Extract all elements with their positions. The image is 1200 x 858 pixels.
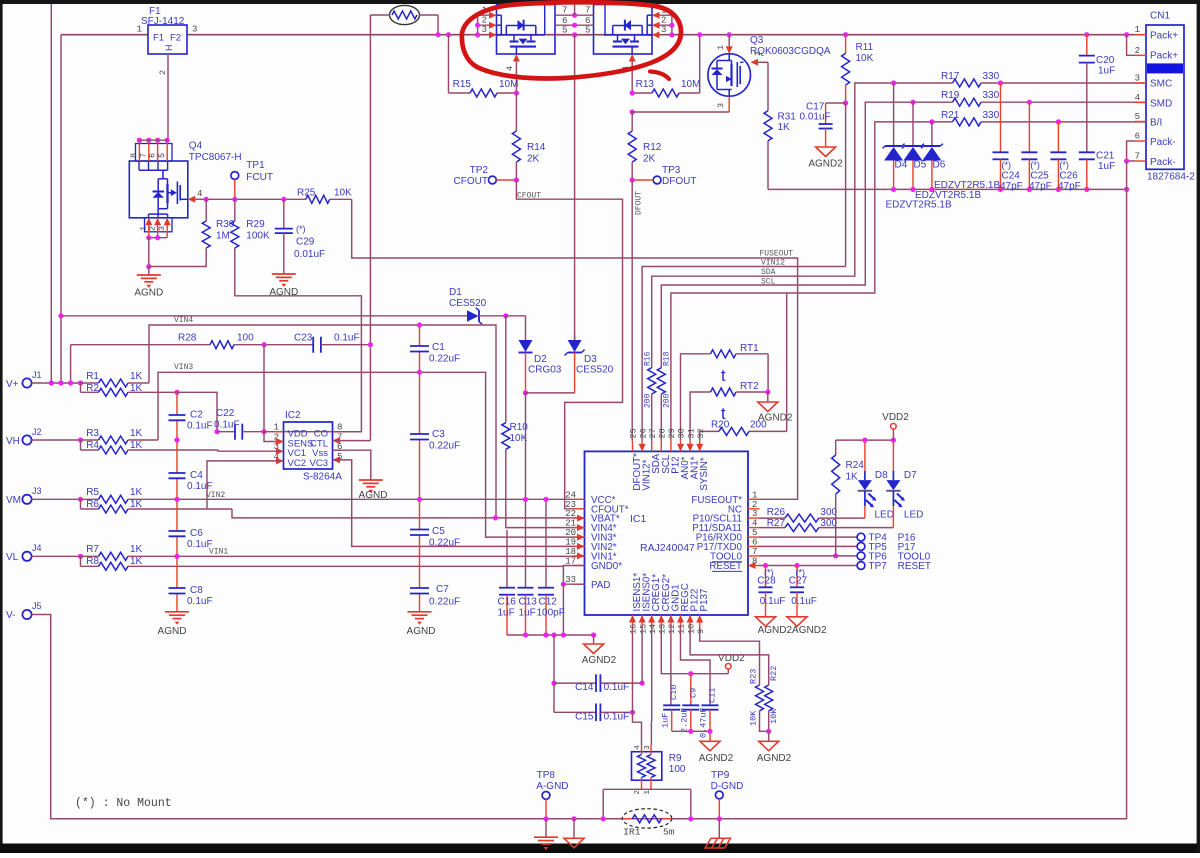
svg-text:R13: R13 <box>636 79 655 90</box>
net label SDA <box>761 268 776 277</box>
labels EDZVT2R5.1B x3 <box>886 180 1001 211</box>
capacitor chain C2 C4 C6 C8 verticals <box>174 390 179 612</box>
svg-text:J3: J3 <box>32 486 42 496</box>
svg-text:1K: 1K <box>130 544 143 555</box>
svg-text:C22: C22 <box>216 408 235 419</box>
capacitor C11 0.47uF <box>699 688 719 742</box>
junction dot R28/C23/IC2pin1 riser <box>262 342 267 347</box>
svg-text:TP7: TP7 <box>869 561 888 572</box>
svg-text:2K: 2K <box>643 154 656 165</box>
test point TP5 P17 <box>760 542 916 553</box>
svg-text:0.22uF: 0.22uF <box>429 597 460 608</box>
capacitor C1 0.22uF <box>410 342 460 365</box>
svg-text:J5: J5 <box>32 601 42 611</box>
resistor R30 1M <box>149 199 235 266</box>
IC IC1 RAJ240047 body <box>585 451 749 615</box>
svg-text:24: 24 <box>565 490 576 500</box>
svg-text:7: 7 <box>562 6 567 16</box>
Q2 pin numbers 1 2 3 <box>661 6 666 36</box>
resistor R29 100K <box>231 199 362 431</box>
capacitor C14 0.1uF <box>554 674 645 693</box>
svg-text:7: 7 <box>752 547 757 557</box>
svg-text:D2: D2 <box>534 354 547 365</box>
svg-text:R3: R3 <box>86 428 99 439</box>
wire D3 top from mid column <box>574 335 576 340</box>
svg-text:200: 200 <box>644 393 653 408</box>
svg-text:10M: 10M <box>499 79 518 90</box>
svg-text:D1: D1 <box>449 287 462 298</box>
svg-text:R4: R4 <box>86 440 99 451</box>
LED D7 <box>886 440 923 527</box>
svg-text:R1: R1 <box>86 371 99 382</box>
wire C22 node to IC2 pin1/pin2 <box>264 345 284 442</box>
svg-text:1: 1 <box>644 790 652 795</box>
Q2 pin 4 source arrow and label <box>621 54 636 93</box>
diode D2 CRG03 <box>519 316 562 393</box>
svg-text:AGND: AGND <box>269 287 298 298</box>
resistor R27 300 <box>760 518 894 532</box>
Q4 pin4 gate wire <box>188 189 206 203</box>
wire IC1 pin9 to R23 <box>700 626 760 685</box>
wire FUSEOUT net R25 to IC1 pin1 <box>352 199 798 499</box>
resistor R3 1K <box>81 428 159 444</box>
svg-text:C10: C10 <box>669 685 679 700</box>
svg-text:8: 8 <box>129 153 139 158</box>
svg-text:C28: C28 <box>757 576 776 587</box>
ground AGND under IC2 <box>359 480 388 501</box>
wire IC2 pin8 CO from R29 <box>333 431 362 433</box>
resistor R8 1K <box>81 556 564 570</box>
svg-text:C27: C27 <box>789 576 808 587</box>
svg-text:TP1: TP1 <box>246 160 265 171</box>
net label FUSEOUT <box>760 250 794 259</box>
wire VDD2 LED rail <box>836 438 896 443</box>
svg-text:300: 300 <box>820 518 837 529</box>
svg-text:C21: C21 <box>1096 151 1115 162</box>
resistor R24 1K <box>832 440 865 558</box>
transistor Q1 dual-MOSFET left (charge FET) <box>497 5 556 55</box>
svg-text:C26: C26 <box>1059 171 1078 182</box>
wire IC2 pin6 Vss to AGND <box>333 450 371 480</box>
CN1 pin labels <box>1150 31 1178 168</box>
Q1 pin frame / tie pins 1-2-3 <box>478 12 497 39</box>
svg-text:C20: C20 <box>1096 55 1115 66</box>
wire C9/C10/C11 bottom rail <box>672 729 713 734</box>
svg-text:F2: F2 <box>170 33 181 44</box>
svg-text:AGND2: AGND2 <box>808 159 843 170</box>
svg-text:VIN12: VIN12 <box>761 259 785 268</box>
svg-text:200: 200 <box>750 420 767 431</box>
svg-text:PAD: PAD <box>591 580 610 591</box>
svg-text:R24: R24 <box>846 460 865 471</box>
capacitor C15 0.1uF <box>554 704 635 723</box>
resistor R20 200 <box>700 420 787 441</box>
svg-text:1M: 1M <box>216 231 230 242</box>
ground triangle below rail x=574 <box>564 816 584 848</box>
svg-text:22: 22 <box>565 509 576 519</box>
svg-text:2: 2 <box>1135 46 1140 56</box>
capacitor C27 0.1uF no-mount <box>789 566 817 617</box>
wire VIN4 row <box>149 325 496 518</box>
svg-text:(*): (*) <box>1059 160 1069 170</box>
svg-text:10K: 10K <box>334 188 352 199</box>
svg-text:3: 3 <box>1135 74 1140 84</box>
svg-text:C6: C6 <box>190 528 203 539</box>
resistor R11 10K <box>842 32 874 103</box>
svg-text:100: 100 <box>237 333 254 344</box>
capacitor C4 0.1uF <box>169 470 213 492</box>
junction dots J1 row <box>49 380 83 385</box>
svg-text:R19: R19 <box>941 90 960 101</box>
IC IC2 S-8264A <box>284 410 343 483</box>
wire Pack- down right side x=1126.6 <box>1126 189 1128 819</box>
svg-text:12: 12 <box>667 624 677 634</box>
red hand-drawn annotation circle around dual MOSFETs <box>462 2 681 79</box>
svg-text:IC2: IC2 <box>285 410 301 421</box>
capacitor C8 0.1uF <box>169 585 213 607</box>
svg-text:21: 21 <box>565 519 576 529</box>
svg-text:C9: C9 <box>688 688 698 698</box>
zener D4 EDZVT2R5.1B <box>883 80 908 189</box>
svg-text:0.47uF: 0.47uF <box>699 707 709 738</box>
capacitor C28 0.1uF no-mount <box>757 566 785 617</box>
Q3 pin3 wire to DFOUT column <box>632 96 729 112</box>
IC1 bottom rotated pin labels <box>632 573 710 612</box>
svg-text:1: 1 <box>137 25 142 35</box>
svg-text:5: 5 <box>585 26 590 36</box>
resistor network R9 100 <box>632 745 686 795</box>
svg-text:10K: 10K <box>769 708 779 724</box>
svg-text:0.01uF: 0.01uF <box>800 112 831 123</box>
capacitor C16 1uF <box>498 530 517 635</box>
wire PTC right leg to rail <box>419 15 438 35</box>
connector J4 VL <box>6 543 81 563</box>
svg-text:R21: R21 <box>941 110 960 121</box>
resistor R26 300 <box>760 507 865 522</box>
svg-text:VC3: VC3 <box>310 458 328 469</box>
resistor R15 10M <box>449 35 519 97</box>
resistor R10 10K <box>502 316 585 528</box>
Q3 pin2 wire to R31 <box>751 51 769 66</box>
ground AGND2 under R22/R23 <box>757 731 792 764</box>
ground AGND below rail at TP8 <box>534 819 558 850</box>
svg-text:1K: 1K <box>130 371 143 382</box>
wire IC1 pin10 to R22 <box>690 626 769 685</box>
svg-text:D8: D8 <box>875 470 888 481</box>
CN1 pin stubs and numbers <box>1135 25 1146 161</box>
wire CN1 pin2 jog <box>1124 32 1135 55</box>
Q4 bottom pins 1 2 3 <box>139 218 171 240</box>
wire AGND2 rail under IC1 <box>507 632 596 637</box>
resistor R28 100 <box>178 333 313 349</box>
ground AGND2 under IC1 <box>582 635 617 666</box>
wire Pack- rail y=189.4 <box>768 188 1127 190</box>
resistor R19 330 <box>941 90 1146 106</box>
resistor R14 2K <box>512 93 545 180</box>
resistor R17 330 <box>941 71 1146 87</box>
resistor R22 10K <box>765 666 779 734</box>
svg-text:0.1uF: 0.1uF <box>187 481 213 492</box>
svg-text:0.1uF: 0.1uF <box>760 596 786 607</box>
svg-text:100: 100 <box>669 764 686 775</box>
svg-text:LED: LED <box>904 509 923 520</box>
svg-text:SCL: SCL <box>761 278 776 287</box>
svg-text:TP8: TP8 <box>537 770 556 781</box>
svg-text:32: 32 <box>696 428 706 438</box>
svg-text:C7: C7 <box>436 584 449 595</box>
svg-text:TPC8067-H: TPC8067-H <box>189 152 242 163</box>
svg-text:29: 29 <box>667 428 677 438</box>
wire IC1 pin13 to VDD2 and C9 <box>661 626 728 677</box>
svg-text:VM: VM <box>6 495 21 506</box>
svg-text:100K: 100K <box>246 231 270 242</box>
capacitor C5 0.22uF <box>410 526 460 549</box>
svg-text:5m: 5m <box>663 827 675 838</box>
svg-text:C15: C15 <box>575 711 594 722</box>
wire IC1 pin14 to R9 pin3 <box>650 626 652 746</box>
svg-text:3: 3 <box>644 745 652 750</box>
svg-text:4: 4 <box>634 745 642 750</box>
svg-text:10K: 10K <box>749 710 759 726</box>
svg-text:D-GND: D-GND <box>711 781 744 792</box>
svg-text:5: 5 <box>562 26 567 36</box>
wire C14 feed x=555 <box>551 635 556 712</box>
svg-text:H: H <box>164 45 174 52</box>
svg-text:19: 19 <box>565 537 576 547</box>
wire V- to bottom rail <box>32 615 1127 819</box>
svg-text:R29: R29 <box>246 219 265 230</box>
svg-text:0.1uF: 0.1uF <box>604 711 630 722</box>
svg-text:C3: C3 <box>432 429 445 440</box>
svg-text:2: 2 <box>482 16 487 26</box>
svg-text:1K: 1K <box>130 499 143 510</box>
wire IC1 pin16 to R9 pin4 <box>633 626 642 746</box>
svg-text:0.1uF: 0.1uF <box>187 421 213 432</box>
svg-text:4: 4 <box>752 519 757 529</box>
svg-text:FCUT: FCUT <box>246 172 273 183</box>
resistor R12 2K <box>628 112 662 180</box>
svg-text:J2: J2 <box>32 427 42 437</box>
svg-text:SMD: SMD <box>1150 99 1172 110</box>
IC1 right pin stubs and numbers <box>748 490 760 569</box>
transistor Q2 dual-MOSFET right (discharge FET) <box>594 5 653 55</box>
svg-text:SYSIN*: SYSIN* <box>699 457 710 490</box>
net label VIN12 <box>761 259 785 268</box>
capacitor C20 1uF <box>1079 32 1115 152</box>
capacitor C9 2.2uF <box>679 674 699 733</box>
svg-text:R11: R11 <box>856 42 874 53</box>
svg-text:Pack-: Pack- <box>1150 157 1176 168</box>
svg-text:1uF: 1uF <box>1098 161 1115 172</box>
capacitor C26 47pF no-mount <box>1050 119 1080 192</box>
note No Mount <box>75 797 172 810</box>
svg-text:FUSEOUT: FUSEOUT <box>760 250 794 259</box>
svg-text:GND0*: GND0* <box>591 561 622 572</box>
grounds AGND2 under C28 C27 <box>756 617 827 636</box>
svg-text:P137: P137 <box>699 589 710 612</box>
svg-text:R6: R6 <box>86 499 99 510</box>
resistor R16 200 on SDA <box>644 351 656 440</box>
svg-text:AGND2: AGND2 <box>757 753 792 764</box>
wire R20 feed x=786.7 <box>786 293 788 431</box>
wire VIN12 net row y=266.5 <box>642 267 846 441</box>
junction dots Pack- rail <box>891 187 1129 192</box>
thermistor RT1 <box>681 343 769 441</box>
svg-text:C12: C12 <box>539 597 558 608</box>
resistor R18 200 on SCL <box>657 351 671 440</box>
IC2 pin stubs and arrows <box>276 432 341 465</box>
resistor R4 1K <box>81 440 219 454</box>
svg-text:S-8264A: S-8264A <box>303 472 342 483</box>
svg-text:V-: V- <box>6 610 15 621</box>
svg-text:CFOUT: CFOUT <box>517 192 541 201</box>
connector J2 VH <box>6 427 81 447</box>
test point TP1 FCUT <box>231 160 273 199</box>
svg-text:C24: C24 <box>1002 171 1021 182</box>
svg-text:5: 5 <box>1135 112 1140 122</box>
capacitor C3 0.22uF <box>410 429 460 452</box>
svg-text:Pack-: Pack- <box>1150 137 1176 148</box>
resistor R7 1K <box>81 544 585 560</box>
wire Q4 source to AGND node <box>146 238 151 269</box>
svg-text:LED: LED <box>875 509 894 520</box>
svg-text:10M: 10M <box>681 79 700 90</box>
svg-text:13: 13 <box>658 624 668 634</box>
junction dots dual MOSFET ties <box>475 13 675 38</box>
svg-text:C11: C11 <box>708 688 718 703</box>
IC1 left pin stubs and numbers <box>565 490 584 585</box>
svg-text:14: 14 <box>648 624 658 634</box>
svg-text:4: 4 <box>1135 93 1140 103</box>
svg-text:R17: R17 <box>941 71 960 82</box>
test point TP9 D-GND <box>711 770 744 821</box>
connector J3 VM <box>6 486 81 506</box>
ground AGND under C29 <box>269 274 298 298</box>
test point TP2 CFOUT <box>454 165 519 187</box>
thermistor RT2 <box>690 381 768 441</box>
svg-text:R22: R22 <box>769 666 779 681</box>
svg-text:AGND: AGND <box>134 288 163 299</box>
ground AGND under C8 <box>158 612 189 637</box>
wire DFOUT net down to IC1 pin25 <box>631 180 633 441</box>
svg-text:R12: R12 <box>643 142 662 153</box>
net label DFOUT rotated <box>635 191 644 215</box>
svg-text:CES520: CES520 <box>449 298 487 309</box>
Q1 pin numbers 1 2 3 <box>482 6 487 36</box>
svg-text:1K: 1K <box>130 383 143 394</box>
wire R28 row from V+ <box>71 344 210 346</box>
svg-text:27: 27 <box>648 428 658 438</box>
svg-text:R27: R27 <box>767 518 786 529</box>
svg-text:C5: C5 <box>432 526 445 537</box>
svg-text:1K: 1K <box>130 487 143 498</box>
svg-text:1: 1 <box>716 45 726 50</box>
IC1 right pin labels <box>691 495 742 572</box>
svg-text:IC1: IC1 <box>630 513 647 525</box>
svg-text:31: 31 <box>686 428 696 438</box>
svg-text:1K: 1K <box>846 472 859 483</box>
svg-text:R16: R16 <box>644 351 653 366</box>
svg-text:CN1: CN1 <box>1150 11 1170 22</box>
wire IC2 pin7 CTL from PTC <box>333 440 371 442</box>
wire IC1 pin12 to C10 <box>670 626 672 706</box>
svg-text:CES520: CES520 <box>576 365 614 376</box>
resistor R6 1K <box>81 499 233 513</box>
svg-text:4: 4 <box>197 189 202 199</box>
junction dots IR1 <box>601 816 694 821</box>
wire V+ riser x=61 to F1 rail <box>60 35 62 383</box>
svg-text:2: 2 <box>753 51 763 56</box>
svg-text:2.2uF: 2.2uF <box>679 707 689 733</box>
svg-text:R23: R23 <box>749 669 759 684</box>
Q1 pin 4 source arrow and label <box>505 54 520 93</box>
net label VIN3 <box>174 363 193 372</box>
wire mid column x=574.6 from top to D3 <box>574 4 576 340</box>
junction dot R15/R14 <box>514 90 519 95</box>
wire CFOUT net down to IC1 pin23 <box>516 180 622 509</box>
wire SDA net row y=276.2 <box>652 83 953 368</box>
fuse F1 SFJ-1412 <box>141 6 187 54</box>
svg-text:D5: D5 <box>914 160 927 171</box>
svg-text:TP9: TP9 <box>711 770 730 781</box>
svg-text:0.01uF: 0.01uF <box>294 249 325 260</box>
svg-text:300: 300 <box>820 507 837 518</box>
svg-text:TP3: TP3 <box>662 165 681 176</box>
test point TP7 RESET <box>760 561 931 572</box>
svg-text:C23: C23 <box>294 333 313 344</box>
svg-text:AGND2: AGND2 <box>699 753 734 764</box>
svg-text:F1: F1 <box>153 33 164 44</box>
svg-text:7: 7 <box>1135 152 1140 162</box>
test point TP8 A-GND <box>536 770 568 821</box>
svg-text:(*): (*) <box>1002 160 1012 170</box>
resistor R5 1K <box>81 487 585 503</box>
svg-text:R7: R7 <box>86 544 99 555</box>
svg-text:7: 7 <box>585 6 590 16</box>
svg-text:100pF: 100pF <box>537 608 565 619</box>
svg-text:330: 330 <box>983 71 1000 82</box>
svg-text:IR1: IR1 <box>623 827 640 838</box>
svg-text:18: 18 <box>565 547 576 557</box>
resistor R13 10M <box>632 35 700 97</box>
wire RT1 right leg down to AGND2 node <box>765 354 770 395</box>
svg-text:25: 25 <box>629 428 639 438</box>
svg-text:1uF: 1uF <box>660 713 670 728</box>
svg-text:6: 6 <box>1135 132 1140 142</box>
svg-text:CRG03: CRG03 <box>528 365 562 376</box>
svg-text:1: 1 <box>752 490 757 500</box>
svg-text:6: 6 <box>585 16 590 26</box>
net label VIN4 <box>174 316 193 325</box>
diode D3 CES520 zener <box>565 340 614 393</box>
svg-text:1K: 1K <box>130 440 143 451</box>
ground D-GND chassis symbol <box>705 819 731 848</box>
power VDD2 (LED) <box>882 412 909 440</box>
wire D1 output to D2/R10 <box>479 313 526 318</box>
wire IC2 pin5 VC3 to VIN2 row <box>333 460 585 547</box>
svg-text:SMC: SMC <box>1150 79 1172 90</box>
svg-text:10K: 10K <box>856 53 874 64</box>
svg-text:(*) : No Mount: (*) : No Mount <box>75 797 172 810</box>
svg-text:C14: C14 <box>575 682 594 693</box>
svg-text:C8: C8 <box>190 585 203 596</box>
capacitor C10 1uF <box>660 685 680 732</box>
IC2 pin numbers <box>274 423 343 462</box>
capacitor C21 1uF <box>1079 151 1115 190</box>
Q1 mid pin frame 7 6 5 <box>545 5 575 36</box>
svg-text:30: 30 <box>677 428 687 438</box>
wire SCL net row y=285 <box>661 102 952 368</box>
